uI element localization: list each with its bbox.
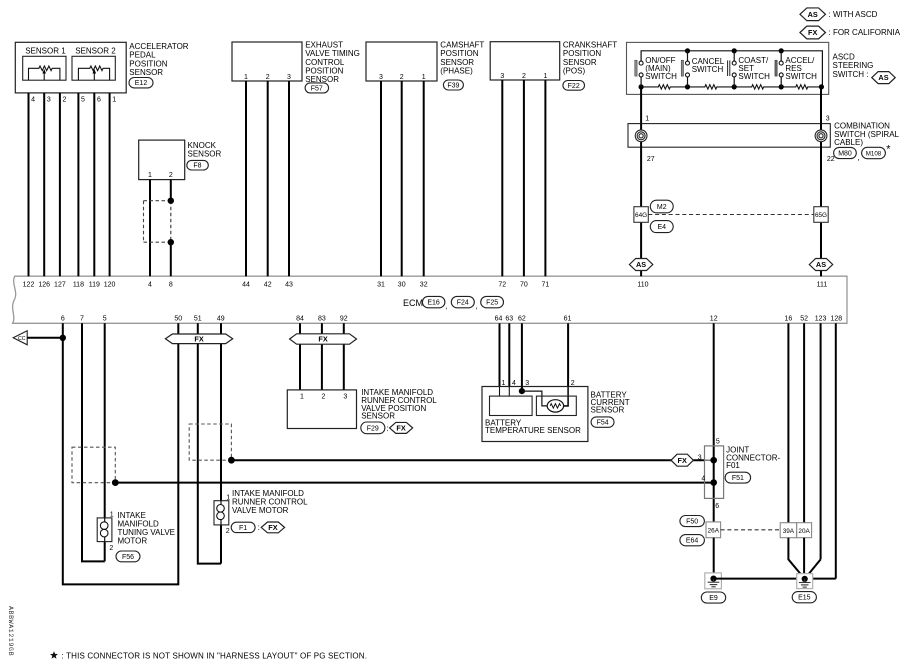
svg-text:POSITION: POSITION — [563, 49, 601, 58]
junction dots in joint connector — [710, 457, 717, 464]
svg-text:AS: AS — [816, 260, 826, 269]
svg-text:1: 1 — [226, 494, 230, 501]
svg-text:22: 22 — [827, 156, 835, 163]
svg-text:64: 64 — [495, 315, 503, 322]
svg-text:119: 119 — [89, 282, 100, 289]
thermistor inner box — [536, 396, 576, 415]
connector F56 — [116, 551, 140, 562]
AS hexagon on left wire — [629, 259, 652, 271]
svg-text:AS: AS — [636, 260, 646, 269]
connector E9 — [701, 592, 725, 603]
connector E12 — [129, 78, 153, 88]
combination switch (spiral cable) box — [628, 124, 830, 148]
legend AS hexagon — [800, 8, 826, 21]
intake manifold runner control valve position sensor box F29 — [287, 390, 356, 429]
svg-text:4: 4 — [31, 96, 35, 103]
ASCD top bus junction dots — [685, 48, 690, 53]
svg-text:44: 44 — [242, 282, 250, 289]
svg-text:,: , — [475, 302, 477, 311]
wiper arrow sensor 2 — [93, 69, 97, 74]
svg-text:: WITH ASCD: : WITH ASCD — [829, 10, 878, 19]
svg-text:TEMPERATURE SENSOR: TEMPERATURE SENSOR — [485, 426, 581, 435]
svg-text:20A: 20A — [798, 528, 810, 535]
wire through left spiral — [640, 124, 642, 148]
svg-text:SENSOR: SENSOR — [563, 58, 597, 67]
wire ECM pin 49 down to runner motor — [220, 323, 222, 500]
svg-text:M2: M2 — [657, 204, 667, 211]
svg-text:F25: F25 — [486, 300, 498, 307]
svg-text:F39: F39 — [447, 83, 459, 90]
svg-text:71: 71 — [542, 282, 550, 289]
svg-text:118: 118 — [73, 282, 84, 289]
svg-text:2: 2 — [109, 545, 113, 552]
svg-text:110: 110 — [637, 282, 648, 289]
svg-text:FX: FX — [808, 28, 817, 37]
connector F57 — [305, 83, 329, 93]
svg-text:63: 63 — [505, 315, 513, 322]
thermistor symbol — [547, 400, 563, 412]
svg-text:3: 3 — [379, 74, 383, 81]
connector E4 — [650, 221, 673, 233]
svg-text:6: 6 — [715, 503, 719, 510]
svg-text:64G: 64G — [635, 212, 647, 219]
svg-text:2: 2 — [62, 96, 66, 103]
svg-text:42: 42 — [264, 282, 272, 289]
svg-text:5: 5 — [716, 439, 720, 446]
potentiometer sensor 1 — [29, 66, 60, 80]
svg-text:70: 70 — [520, 282, 528, 289]
svg-text:E15: E15 — [798, 595, 811, 602]
svg-text:SWITCH :: SWITCH : — [833, 70, 869, 79]
sensor 2 inner box — [72, 56, 115, 80]
wiper arrow sensor 1 — [42, 69, 46, 74]
inner leads — [499, 387, 501, 397]
svg-text:(PHASE): (PHASE) — [440, 67, 473, 76]
svg-text:1: 1 — [244, 74, 248, 81]
svg-text:52: 52 — [800, 315, 808, 322]
svg-text:8: 8 — [169, 282, 173, 289]
svg-text:16: 16 — [785, 315, 793, 322]
svg-text:CAMSHAFT: CAMSHAFT — [440, 40, 484, 49]
svg-text:FX: FX — [396, 424, 405, 433]
ECM main band (wavy left edge) — [13, 276, 847, 323]
svg-text:5: 5 — [81, 96, 85, 103]
motor coil symbol — [220, 501, 222, 505]
fusible link 20A — [797, 523, 812, 538]
wire ECM pin 5 down to tuning valve motor — [104, 323, 106, 518]
svg-text:SENSOR: SENSOR — [361, 412, 395, 421]
svg-text:F57: F57 — [311, 85, 323, 92]
svg-text:F54: F54 — [597, 420, 609, 427]
exhaust valve timing control position sensor box F57 — [232, 42, 302, 81]
ASCD bottom bus junction dots — [639, 84, 644, 89]
F22 wires — [501, 80, 503, 276]
svg-text:2: 2 — [322, 393, 326, 400]
ASCD steering switch outer box — [627, 42, 829, 94]
svg-text:CONTROL: CONTROL — [305, 58, 345, 67]
svg-text:AS: AS — [878, 73, 888, 82]
wire pin 27 to ECM pin 110 — [640, 147, 642, 276]
svg-text:SWITCH: SWITCH — [692, 65, 724, 74]
svg-text:VALVE TIMING: VALVE TIMING — [305, 49, 360, 58]
svg-text:126: 126 — [38, 282, 50, 289]
svg-text:1: 1 — [645, 116, 649, 123]
wire pin 22 to ECM pin 111 — [820, 147, 822, 276]
wires ECM 84 83 92 to runner position sensor — [299, 323, 301, 390]
dashed link 26A to 39A — [721, 529, 781, 531]
svg-text:26A: 26A — [708, 527, 720, 534]
svg-text:1: 1 — [502, 380, 506, 387]
svg-text:EXHAUST: EXHAUST — [305, 40, 343, 49]
svg-text:65G: 65G — [815, 212, 827, 219]
svg-text:1: 1 — [543, 73, 547, 80]
svg-text:SENSOR: SENSOR — [129, 68, 163, 77]
fusible link 26A — [706, 522, 721, 538]
dashed option box left — [72, 447, 115, 483]
svg-text:SWITCH: SWITCH — [645, 72, 677, 81]
connector F39 — [443, 80, 463, 90]
connector F29 with FX option — [361, 422, 385, 434]
ground E9 — [705, 573, 722, 589]
svg-text:CC: CC — [18, 336, 26, 342]
wires ECM 16 52 123 128 down to ground E15 — [787, 323, 789, 522]
wires ECM 64 63 62 61 to battery current sensor — [499, 323, 501, 386]
switch COAST/ — [733, 51, 735, 61]
crankshaft position sensor (POS) box F22 — [490, 42, 560, 80]
svg-text:E64: E64 — [686, 538, 699, 545]
svg-text:SWITCH: SWITCH — [738, 72, 770, 81]
svg-text:43: 43 — [285, 282, 293, 289]
svg-text:(POS): (POS) — [563, 67, 586, 76]
svg-text:2: 2 — [226, 528, 230, 535]
footnote star — [50, 651, 58, 659]
connector F50 — [680, 516, 705, 527]
CC arrow terminal — [13, 331, 27, 345]
intake manifold tuning valve motor box F56 — [97, 518, 112, 542]
svg-text:5: 5 — [103, 315, 107, 322]
svg-text:2: 2 — [169, 172, 173, 179]
svg-text:4: 4 — [512, 380, 516, 387]
svg-text:6: 6 — [61, 315, 65, 322]
svg-text:F22: F22 — [568, 83, 580, 90]
svg-text:3: 3 — [525, 380, 529, 387]
resistor on ASCD bus — [688, 85, 735, 89]
svg-text:M108: M108 — [866, 151, 882, 158]
wire to joint connector pin 4 — [115, 482, 713, 484]
dashed link 64G to 65G — [648, 214, 813, 216]
svg-text:SENSOR: SENSOR — [188, 150, 222, 159]
svg-text::: : — [386, 424, 388, 433]
FX hexagon over wires 50 51 49 — [165, 334, 232, 344]
svg-text:VALVE MOTOR: VALVE MOTOR — [232, 506, 289, 515]
svg-text:62: 62 — [518, 315, 526, 322]
svg-text:E12: E12 — [135, 80, 148, 87]
wire ECM pin 6 down, across, up to pin 50 — [63, 323, 179, 584]
knock sensor wire pin 1 — [149, 180, 151, 277]
svg-text:FX: FX — [268, 523, 277, 532]
svg-text:1: 1 — [112, 96, 116, 103]
svg-text:SWITCH: SWITCH — [785, 72, 817, 81]
wire ground E9 to ground E15 — [714, 578, 805, 580]
svg-text:7: 7 — [80, 315, 84, 322]
converging wires into E15 — [788, 538, 804, 579]
camshaft position sensor (phase) box F39 — [366, 42, 437, 81]
resistor on ASCD bus — [734, 85, 781, 89]
switch ON/OFF — [640, 77, 642, 87]
accelerator pedal position sensor outer box — [15, 42, 126, 93]
FX hexagon on wire to pin 3 — [671, 454, 693, 466]
connector F22 — [563, 81, 585, 91]
connector E15 — [792, 592, 816, 603]
svg-text:F8: F8 — [193, 163, 201, 170]
svg-text::: : — [258, 523, 260, 532]
connector F1 with FX option — [231, 522, 255, 532]
svg-text:30: 30 — [398, 282, 406, 289]
svg-text:SENSOR 1: SENSOR 1 — [25, 47, 66, 56]
svg-text:3: 3 — [698, 455, 702, 462]
wire ASCD to combination switch left — [640, 87, 642, 124]
wire to joint connector pin 3 — [231, 459, 704, 461]
svg-text:F1: F1 — [239, 525, 247, 532]
connector F51 — [725, 472, 751, 483]
svg-text:SENSOR: SENSOR — [440, 58, 474, 67]
svg-text:CRANKSHAFT: CRANKSHAFT — [563, 40, 617, 49]
svg-text:72: 72 — [498, 282, 506, 289]
svg-text:3: 3 — [287, 74, 291, 81]
svg-text:31: 31 — [377, 282, 385, 289]
svg-text:83: 83 — [318, 315, 326, 322]
wire CC to pin 6 — [27, 337, 63, 339]
svg-text:3: 3 — [826, 116, 830, 123]
svg-text:3: 3 — [343, 393, 347, 400]
wire ECM pin 7 down to motor return — [82, 323, 105, 561]
connector E64 — [680, 535, 705, 546]
wire through right spiral — [820, 124, 822, 148]
svg-text:92: 92 — [340, 315, 348, 322]
svg-text:4: 4 — [148, 282, 152, 289]
connector M108 — [862, 147, 886, 158]
accelerator sensor wires to ECM — [28, 93, 30, 276]
AS hexagon on right wire — [809, 259, 832, 271]
svg-text:ABBWA1219GB: ABBWA1219GB — [7, 606, 14, 656]
battery temperature sensor inner box — [490, 396, 533, 415]
knock sensor box — [139, 140, 185, 180]
svg-text:51: 51 — [194, 315, 202, 322]
svg-text:POSITION: POSITION — [305, 67, 343, 76]
svg-text:FX: FX — [678, 456, 687, 465]
svg-text:2: 2 — [400, 74, 404, 81]
joint connector F01 box — [705, 446, 724, 499]
potentiometer sensor 2 — [78, 66, 109, 80]
svg-text:F50: F50 — [686, 519, 698, 526]
switch CANCEL — [687, 51, 689, 61]
svg-text:: THIS CONNECTOR IS NOT SHOWN: : THIS CONNECTOR IS NOT SHOWN IN "HARNES… — [62, 652, 368, 661]
svg-text:F24: F24 — [457, 300, 469, 307]
connector M80 — [834, 147, 857, 158]
svg-text:1: 1 — [422, 74, 426, 81]
legend FX hexagon — [800, 26, 826, 39]
svg-text:FX: FX — [318, 335, 327, 344]
svg-text:CABLE): CABLE) — [834, 138, 863, 147]
svg-text:FX: FX — [194, 334, 203, 343]
shield junction dots — [168, 198, 174, 204]
svg-text:3: 3 — [500, 73, 504, 80]
svg-text:39A: 39A — [783, 528, 795, 535]
svg-text:F51: F51 — [732, 475, 744, 482]
svg-text:E16: E16 — [427, 300, 440, 307]
junction dot at dashed box corner — [228, 457, 235, 464]
intake manifold runner control valve motor box F1 — [214, 501, 229, 525]
svg-text:AS: AS — [808, 10, 818, 19]
connector box 65G — [814, 207, 828, 223]
svg-text:*: * — [886, 144, 891, 156]
wire ECM pin 51 down — [198, 323, 221, 563]
svg-text:E4: E4 — [658, 224, 667, 231]
wire ASCD to combination switch right — [820, 87, 822, 124]
svg-text:1: 1 — [300, 393, 304, 400]
knock sensor wire pin 2 (with shield gap) — [170, 180, 172, 201]
svg-text:61: 61 — [564, 315, 572, 322]
connector box 64G — [634, 207, 648, 223]
svg-text:F29: F29 — [367, 425, 379, 432]
resistor on ASCD bus — [641, 85, 687, 89]
svg-text:SENSOR 2: SENSOR 2 — [75, 47, 116, 56]
svg-text:27: 27 — [647, 156, 655, 163]
svg-text:84: 84 — [296, 315, 304, 322]
svg-text:2: 2 — [522, 73, 526, 80]
svg-text:1: 1 — [148, 172, 152, 179]
svg-text:12: 12 — [710, 315, 718, 322]
fusible link 39A — [780, 523, 797, 538]
svg-text:50: 50 — [174, 315, 182, 322]
F57 wires — [245, 81, 247, 276]
junction dot at dashed box corner — [112, 479, 119, 486]
spiral cable symbol left — [635, 130, 647, 142]
FX hexagon over wires 84 83 92 — [290, 334, 357, 344]
wire 26A to ground E9 — [713, 538, 715, 579]
svg-text:M80: M80 — [838, 151, 852, 158]
svg-text:MOTOR: MOTOR — [118, 537, 148, 546]
F39 wires — [380, 81, 382, 276]
knock shield dashed box — [144, 200, 171, 202]
switch ACCEL/ — [780, 51, 782, 61]
svg-text:2: 2 — [571, 380, 575, 387]
connector F54 — [591, 417, 614, 427]
svg-text:E9: E9 — [709, 595, 718, 602]
svg-text:: FOR CALIFORNIA: : FOR CALIFORNIA — [829, 28, 901, 37]
connector M2 — [650, 200, 673, 213]
svg-text:127: 127 — [54, 282, 66, 289]
svg-text:6: 6 — [97, 96, 101, 103]
sensor 1 inner box — [23, 56, 66, 80]
svg-text:123: 123 — [815, 315, 827, 322]
AS hexagon beside ASCD label — [872, 72, 895, 84]
svg-text:122: 122 — [23, 282, 35, 289]
svg-text:4: 4 — [701, 475, 705, 482]
connector F8 — [187, 160, 209, 170]
battery current sensor outer box — [482, 387, 588, 442]
svg-text:120: 120 — [104, 282, 116, 289]
svg-text:,: , — [445, 302, 447, 311]
svg-text:128: 128 — [830, 315, 842, 322]
svg-text:111: 111 — [817, 282, 828, 289]
svg-text:,: , — [857, 153, 859, 162]
dashed option box right — [189, 424, 231, 460]
svg-text:32: 32 — [420, 282, 428, 289]
ground E15 — [797, 574, 813, 589]
svg-text:49: 49 — [217, 315, 225, 322]
ASCD top bus wire — [641, 51, 822, 87]
motor coil symbol — [104, 518, 106, 522]
junction dot on wire 6 — [60, 335, 66, 341]
svg-text:3: 3 — [47, 96, 51, 103]
svg-text:SENSOR: SENSOR — [591, 406, 625, 415]
svg-text:F01: F01 — [726, 461, 740, 470]
svg-text:2: 2 — [266, 74, 270, 81]
svg-text:ECM: ECM — [403, 298, 423, 308]
svg-text:POSITION: POSITION — [440, 49, 478, 58]
wire ECM pin 12 down through joint connector — [713, 323, 715, 522]
spiral cable symbol right — [815, 130, 827, 142]
svg-text:1: 1 — [110, 511, 114, 518]
svg-text:F56: F56 — [122, 554, 134, 561]
resistor on ASCD bus — [781, 85, 822, 89]
